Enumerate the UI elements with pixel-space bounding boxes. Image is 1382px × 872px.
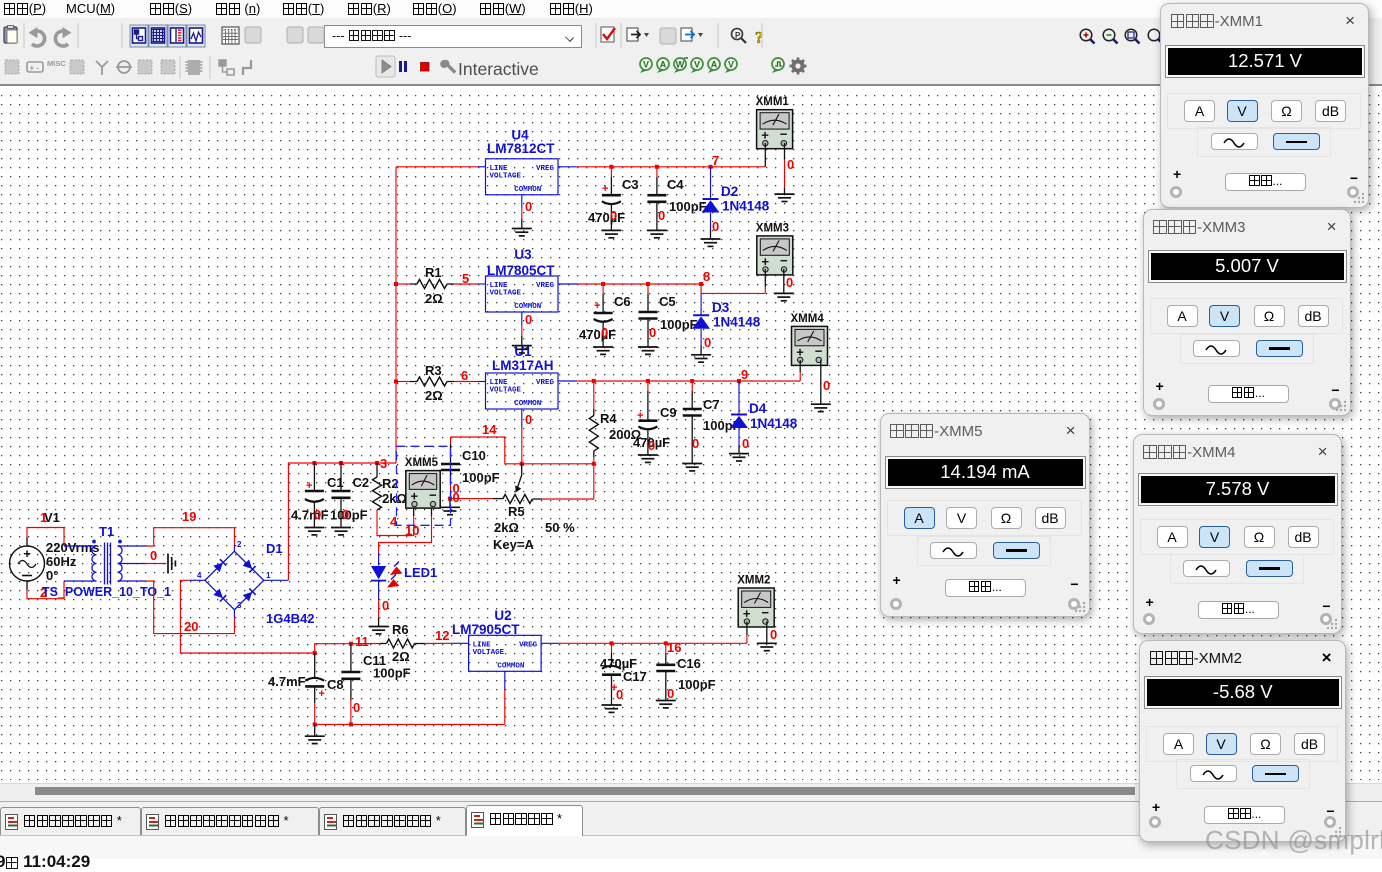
ground lead (net 0 near XMM5) [449, 499, 451, 508]
wire rail to R3 [396, 381, 410, 383]
XMM1 - lead [784, 143, 786, 160]
capacitor C16 (100pF) [656, 665, 675, 671]
voltage regulator U4 box [486, 159, 559, 195]
svg-text:C3: C3 [622, 177, 639, 192]
junction C9 [646, 379, 650, 383]
ground C4 [647, 230, 667, 237]
wire R1 to U3 (net 5) [447, 283, 454, 285]
svg-text:0: 0 [525, 412, 532, 427]
svg-text:MISC: MISC [47, 59, 66, 68]
wire U4 output (net 7) [558, 166, 577, 168]
ground C3 [601, 230, 621, 237]
svg-text:W: W [676, 60, 685, 70]
svg-text:5: 5 [462, 271, 469, 286]
junction C1 [312, 461, 316, 465]
wire rail to R1 [396, 283, 410, 285]
svg-text:0: 0 [770, 627, 777, 642]
resistor R4 body [589, 416, 598, 452]
wire net 19 (secondary top to bridge) [145, 528, 234, 546]
ground D3 [691, 355, 711, 362]
diode D2 lead [710, 167, 712, 199]
svg-text:C7: C7 [703, 397, 720, 412]
svg-text:C8: C8 [327, 677, 344, 692]
capacitor C2 leads [340, 463, 342, 491]
svg-text:14: 14 [482, 422, 497, 437]
diode D3 lead [700, 293, 702, 315]
svg-text:C16: C16 [677, 656, 701, 671]
capacitor C17 leads [611, 643, 613, 653]
wire rail to U4 input [396, 166, 478, 168]
svg-text:C6: C6 [614, 294, 631, 309]
junction C7 [690, 379, 694, 383]
U1 COMMON wire down [521, 409, 523, 428]
ground C16 [656, 701, 676, 708]
capacitor C6 leads [602, 284, 604, 294]
wire U2 output (net 16) [541, 642, 559, 644]
XMM3 - lead [783, 269, 785, 293]
U2 COMMON lead [504, 670, 506, 673]
bottom common rail [315, 723, 505, 725]
voltage regulator U2 box [469, 635, 541, 671]
junction node 16 [664, 641, 668, 645]
ground XMM1 [775, 194, 795, 201]
svg-text:8: 8 [703, 269, 710, 284]
wire bridge right up to filter rail (net 3) [288, 463, 396, 580]
svg-text:V: V [643, 60, 649, 70]
ground LED1 [369, 627, 389, 634]
wire XMM5 - to LED (net 10) [431, 505, 433, 516]
svg-text:12: 12 [435, 628, 449, 643]
wire up to node 11 [315, 644, 351, 653]
svg-text:20: 20 [184, 619, 198, 634]
capacitor C9 (470uF) [638, 419, 657, 422]
svg-text:0: 0 [712, 219, 719, 234]
ground XMM5 branch [440, 507, 460, 514]
svg-text:1G4B42: 1G4B42 [266, 611, 314, 626]
wire R6 to U2 (net 12) [425, 642, 452, 644]
wire net 20 (secondary bottom to bridge) [145, 581, 234, 634]
svg-text:R4: R4 [600, 411, 617, 426]
svg-text:LM7812CT: LM7812CT [487, 141, 555, 156]
junction node 8 [699, 282, 703, 286]
svg-text:470µF: 470µF [588, 210, 625, 225]
junction C2 [339, 461, 343, 465]
svg-text:−: − [815, 343, 823, 358]
capacitor C11 (100pF) [341, 672, 360, 679]
svg-text:0: 0 [658, 208, 665, 223]
capacitor C17 (470uF) [602, 666, 621, 669]
svg-text:A: A [711, 60, 718, 70]
svg-text:R5: R5 [508, 504, 525, 519]
XMM4 + lead [799, 360, 801, 372]
wire U1 output (net 9) [558, 380, 577, 382]
svg-text:VOLTAGE: VOLTAGE [490, 172, 522, 180]
svg-text:V: V [694, 60, 700, 70]
svg-text:1N4148: 1N4148 [722, 199, 770, 214]
svg-text:XMM3: XMM3 [756, 222, 789, 234]
svg-text:COMMON: COMMON [514, 186, 541, 194]
svg-text:220Vrms: 220Vrms [46, 540, 100, 555]
junction node 11 [349, 642, 353, 646]
ground XMM4 [811, 404, 831, 411]
svg-text:XMM2: XMM2 [737, 575, 770, 587]
capacitor C1 (4.7mF) [305, 490, 324, 493]
svg-text:0: 0 [823, 378, 830, 393]
ground (center tap, rotated) [168, 554, 175, 574]
svg-text:LM317AH: LM317AH [492, 358, 554, 373]
svg-text:1N4148: 1N4148 [750, 416, 798, 431]
svg-text:0: 0 [786, 275, 793, 290]
junction R4 bottom [592, 462, 596, 466]
wire R3 to U1 (net 6) [447, 381, 454, 383]
svg-text:+: + [637, 410, 643, 422]
wire node 8 to XMM3 [701, 284, 765, 293]
instrument icon XMM2 [737, 575, 774, 628]
capacitor C3 (470uF) [602, 194, 621, 197]
svg-text:470µF: 470µF [579, 327, 616, 342]
svg-text:6: 6 [461, 368, 468, 383]
svg-text:C2: C2 [353, 475, 370, 490]
ground XMM3 [774, 293, 794, 300]
svg-text:100pF: 100pF [660, 317, 698, 332]
XMM5 selection box [397, 446, 451, 525]
bridge left lead [190, 579, 205, 581]
multimeter window XMM5 [880, 413, 1090, 617]
svg-text:C17: C17 [623, 669, 647, 684]
svg-text:4: 4 [197, 571, 202, 580]
junction R3 input [394, 380, 398, 384]
capacitor C8 leads [314, 653, 316, 679]
bridge rectifier D1 [205, 551, 264, 609]
svg-text:7: 7 [712, 153, 719, 168]
AC source V1 [10, 537, 45, 590]
junction R1 input [394, 282, 398, 286]
svg-text:0: 0 [648, 438, 655, 453]
resistor R2 [376, 463, 378, 477]
resistor R6 body [387, 639, 415, 648]
ground C7 [682, 464, 702, 471]
svg-text:1: 1 [266, 571, 271, 580]
svg-text:0: 0 [453, 490, 460, 505]
svg-text:D2: D2 [721, 184, 738, 199]
svg-text:XMM5: XMM5 [405, 457, 439, 469]
capacitor C10 leads [450, 437, 452, 444]
svg-text:0: 0 [353, 700, 360, 715]
svg-text:D3: D3 [712, 300, 730, 315]
svg-text:+: + [319, 688, 325, 700]
junction C10 bottom [448, 497, 452, 501]
ground C6 [593, 347, 613, 354]
svg-text:0: 0 [610, 208, 617, 223]
U3 COMMON to ground [521, 312, 523, 325]
svg-text:0: 0 [704, 335, 711, 350]
wire center tap to ground [145, 563, 167, 565]
ground bottom rail [305, 736, 325, 743]
svg-text:2: 2 [237, 540, 242, 549]
svg-text:100pF: 100pF [669, 199, 707, 214]
svg-text:2Ω: 2Ω [392, 649, 410, 664]
instrument icon XMM5 [405, 457, 440, 508]
svg-text:TS_POWER_10_TO_1: TS_POWER_10_TO_1 [42, 585, 171, 599]
wire V1 top to T1 primary [27, 528, 64, 547]
svg-text:R6: R6 [392, 622, 409, 637]
resistor R1 body [417, 280, 447, 289]
ground D2 [701, 239, 721, 246]
svg-text:LM7805CT: LM7805CT [487, 263, 555, 278]
capacitor C8 (4.7mF) [305, 678, 324, 681]
junction node 9 [737, 379, 741, 383]
svg-text:D4: D4 [749, 401, 767, 416]
voltage regulator U1 box [486, 373, 559, 409]
capacitor C9 leads [647, 381, 649, 391]
multimeter window XMM3 [1143, 209, 1351, 416]
junction C8 top [313, 651, 317, 655]
svg-text:+ -: + - [30, 64, 40, 73]
svg-text:2kΩ: 2kΩ [382, 491, 407, 506]
svg-text:VOLTAGE: VOLTAGE [473, 649, 505, 657]
svg-text:U3: U3 [514, 247, 532, 262]
svg-text:60Hz: 60Hz [46, 554, 77, 569]
svg-text:C4: C4 [667, 177, 684, 192]
svg-text:VOLTAGE: VOLTAGE [490, 290, 522, 298]
ground C1 [304, 528, 324, 535]
svg-text:+: + [23, 546, 31, 561]
wire node 11 to R6 [351, 643, 380, 645]
capacitor C16 leads [665, 643, 667, 653]
junction C17 [610, 641, 614, 645]
junction C6 [601, 282, 605, 286]
ground C9 [638, 455, 658, 462]
wire R2 to XMM5 + (net 4) [377, 510, 414, 536]
svg-text:COMMON: COMMON [514, 303, 541, 311]
XMM3 + lead [764, 269, 766, 287]
wire to R5 left [450, 498, 493, 500]
capacitor C4 (100pF) [647, 195, 666, 202]
svg-text:1: 1 [40, 510, 47, 525]
svg-text:−: − [780, 253, 788, 268]
wire bridge left to bottom rail [180, 580, 314, 653]
svg-text:COMMON: COMMON [497, 662, 524, 670]
wire net 14 [451, 437, 594, 464]
LED LED1 [371, 562, 403, 588]
ground C17 [602, 705, 622, 712]
input rail vertical [395, 167, 397, 463]
voltage regulator U3 box [486, 276, 559, 312]
svg-text:−: − [780, 127, 788, 142]
svg-text:2Ω: 2Ω [425, 291, 443, 306]
svg-text:C10: C10 [462, 448, 486, 463]
svg-text:+: + [594, 300, 600, 312]
wire U3 output (net 8) [558, 283, 577, 285]
capacitor C4 leads [656, 167, 658, 177]
svg-text:100pF: 100pF [462, 470, 500, 485]
svg-text:0: 0 [787, 157, 794, 172]
capacitor C11 leads [350, 644, 352, 672]
capacitor C3 leads [610, 167, 612, 177]
svg-text:COMMON: COMMON [514, 400, 541, 408]
svg-text:0: 0 [314, 507, 321, 522]
transformer T1 [92, 540, 122, 584]
T1 secondary leads [118, 545, 146, 547]
svg-text:0: 0 [667, 686, 674, 701]
diode D4 (1N4148) [731, 414, 747, 416]
bridge right lead [264, 579, 289, 581]
svg-text:−: − [761, 605, 769, 620]
svg-text:C5: C5 [659, 294, 676, 309]
multimeter window XMM4 [1133, 434, 1342, 634]
capacitor C2 (100pF) [332, 491, 351, 498]
resistor R4 [593, 381, 595, 409]
svg-text:16: 16 [667, 640, 681, 655]
svg-text:0: 0 [616, 687, 623, 702]
svg-text:4.7mF: 4.7mF [268, 674, 306, 689]
svg-text:0: 0 [342, 507, 349, 522]
multimeter window XMM1 [1160, 3, 1369, 208]
svg-text:D1: D1 [266, 541, 283, 556]
capacitor C1 leads [313, 463, 315, 491]
svg-text:+: + [306, 480, 312, 492]
capacitor C5 leads [647, 284, 649, 294]
XMM2 - lead [766, 622, 768, 644]
svg-text:50 %: 50 % [545, 520, 575, 535]
XMM2 + lead [746, 622, 748, 636]
ground U3 COMMON [512, 346, 532, 353]
svg-text:0: 0 [525, 199, 532, 214]
resistor R2 body [373, 477, 382, 510]
toolbar icons [4, 26, 17, 44]
potentiometer R5 body [503, 495, 533, 504]
svg-text:19: 19 [182, 509, 196, 524]
capacitor C7 (100pF) [683, 409, 702, 416]
ground XMM2 [757, 643, 777, 650]
svg-text:XMM1: XMM1 [756, 96, 790, 108]
instrument icon XMM1 [756, 96, 793, 149]
svg-text:1N4148: 1N4148 [713, 315, 761, 330]
junction node 3 [375, 461, 379, 465]
capacitor C10 (100pF) [441, 464, 460, 470]
U4 COMMON to ground [521, 195, 523, 208]
svg-text:2Ω: 2Ω [425, 388, 443, 403]
svg-text:C9: C9 [660, 405, 677, 420]
svg-text:3: 3 [380, 456, 387, 471]
svg-text:0: 0 [601, 325, 608, 340]
svg-text:C1: C1 [327, 475, 344, 490]
capacitor C6 (470uF) [594, 312, 613, 315]
instrument icon XMM3 [756, 222, 793, 275]
svg-text:VREG: VREG [536, 282, 555, 290]
junction node 7 [709, 165, 713, 169]
junction C3 [609, 165, 613, 169]
LED1 cathode wire [378, 581, 380, 600]
junction COMMON/wiper [520, 462, 524, 466]
svg-text:LM7905CT: LM7905CT [452, 622, 520, 637]
ground U4 COMMON [512, 229, 532, 236]
svg-text:100pF: 100pF [678, 677, 716, 692]
capacitor C5 (100pF) [639, 312, 658, 319]
wire V1 bottom to T1 primary [27, 581, 64, 599]
svg-text:0: 0 [150, 548, 157, 563]
ground C5 [638, 347, 658, 354]
svg-text:0: 0 [525, 312, 532, 327]
svg-text:VREG: VREG [536, 379, 555, 387]
svg-text:3: 3 [237, 601, 242, 610]
svg-text:11: 11 [355, 634, 369, 649]
XMM4 - lead [820, 360, 822, 404]
svg-text:VREG: VREG [519, 641, 538, 649]
svg-text:4.7mF: 4.7mF [291, 508, 329, 523]
diode D3 (1N4148) [693, 314, 709, 316]
svg-text:LED1: LED1 [404, 565, 437, 580]
svg-text:A: A [660, 60, 667, 70]
junction rail-ground [313, 722, 317, 726]
svg-text:V: V [728, 60, 734, 70]
svg-text:R1: R1 [425, 265, 442, 280]
svg-text:0°: 0° [46, 568, 58, 583]
wire R5 right up to node 14 rail [532, 498, 542, 500]
multimeter window XMM2 [1139, 640, 1346, 842]
junction R4 top [592, 379, 596, 383]
instrument icon XMM4 [791, 313, 828, 366]
svg-text:Key=A: Key=A [493, 537, 534, 552]
svg-text:9: 9 [741, 367, 748, 382]
svg-text:+: + [602, 183, 608, 195]
capacitor C7 leads [691, 381, 693, 391]
XMM1 + lead [764, 143, 766, 167]
resistor R3 body [417, 377, 447, 386]
svg-text:−: − [429, 488, 437, 503]
svg-text:R3: R3 [425, 363, 442, 378]
R5 wiper arrow [518, 464, 522, 488]
svg-text:0: 0 [742, 436, 749, 451]
svg-text:VOLTAGE: VOLTAGE [490, 387, 522, 395]
svg-text:100pF: 100pF [373, 666, 411, 681]
diode D2 (1N4148) [703, 198, 719, 200]
ground C2 [331, 528, 351, 535]
svg-text:VREG: VREG [536, 165, 555, 173]
ground D4 [729, 454, 749, 461]
junction C4 [655, 165, 659, 169]
svg-text:0: 0 [382, 598, 389, 613]
svg-text:2kΩ: 2kΩ [494, 520, 519, 535]
junction C5 [646, 282, 650, 286]
svg-text:XMM4: XMM4 [791, 313, 825, 325]
svg-text:0: 0 [649, 325, 656, 340]
junction C11 bottom [349, 722, 353, 726]
svg-text:P: P [735, 31, 741, 40]
wire rail up to U2 COMMON [504, 690, 506, 724]
svg-text:0: 0 [692, 436, 699, 451]
svg-text:T1: T1 [99, 524, 114, 539]
diode D4 lead [738, 381, 740, 414]
svg-text:U2: U2 [494, 608, 511, 623]
